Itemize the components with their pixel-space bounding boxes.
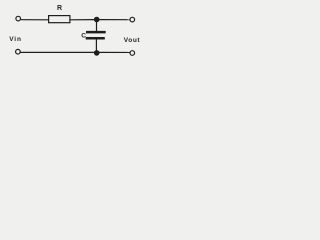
wire: node A down to capacitor [96, 20, 98, 32]
wire: capacitor down to node B [95, 40, 97, 53]
node B (junction dot, bottom) [94, 50, 100, 56]
svg-text:R: R [57, 5, 62, 12]
capacitor C plate bottom [86, 37, 105, 40]
svg-text:Vin: Vin [9, 36, 22, 43]
terminal input bottom (open circle) [16, 49, 21, 54]
terminal output bottom (open circle) [130, 51, 135, 56]
wire: bottom rail right segment [97, 51, 130, 53]
wire: resistor to node A [71, 19, 95, 21]
node A (junction dot, top) [94, 17, 100, 23]
wire: node A to output terminal [99, 19, 130, 21]
background [0, 0, 150, 60]
svg-text:C: C [81, 32, 86, 39]
svg-text:Vout: Vout [124, 37, 141, 44]
capacitor C plate top [86, 31, 106, 34]
wire: input terminal to resistor [21, 19, 49, 21]
terminal input top (open circle) [16, 16, 21, 21]
resistor R [49, 16, 70, 23]
terminal output top (open circle) [130, 17, 135, 22]
wire: bottom rail left segment [20, 51, 96, 53]
